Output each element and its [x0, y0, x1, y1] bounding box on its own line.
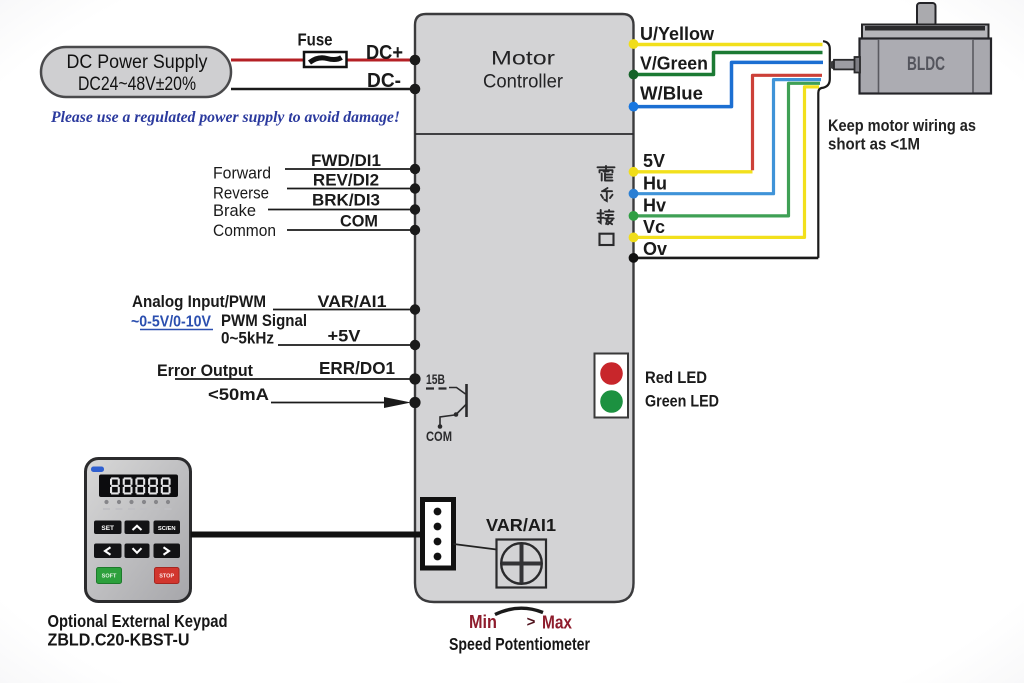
svg-text:FWD/DI1: FWD/DI1	[311, 151, 381, 170]
svg-text:Speed Potentiometer: Speed Potentiometer	[449, 634, 590, 654]
svg-text:Analog Input/PWM: Analog Input/PWM	[132, 292, 266, 311]
svg-text:15B: 15B	[426, 372, 445, 387]
svg-text:Green LED: Green LED	[645, 392, 719, 411]
svg-text:DC+: DC+	[366, 42, 403, 64]
svg-text:W/Blue: W/Blue	[640, 84, 703, 104]
svg-text:COM: COM	[340, 212, 378, 231]
svg-text:BLDC: BLDC	[907, 54, 945, 75]
svg-text:Brake: Brake	[213, 202, 256, 220]
svg-text:COM: COM	[426, 429, 452, 444]
svg-text:0~5kHz: 0~5kHz	[221, 330, 274, 348]
svg-text:SC/EN: SC/EN	[158, 526, 176, 532]
svg-text:Reverse: Reverse	[213, 185, 269, 203]
svg-text:5V: 5V	[643, 151, 665, 171]
svg-text:+5V: +5V	[328, 327, 362, 346]
svg-text:Please use a regulated power s: Please use a regulated power supply to a…	[50, 109, 400, 126]
svg-text:BRK/DI3: BRK/DI3	[312, 191, 380, 210]
svg-text:VAR/AI1: VAR/AI1	[486, 515, 556, 535]
svg-text:Keep motor wiring as: Keep motor wiring as	[828, 116, 976, 135]
svg-text:STOP: STOP	[159, 574, 174, 580]
svg-text:V/Green: V/Green	[640, 54, 708, 74]
svg-text:REV/DI2: REV/DI2	[313, 171, 379, 190]
svg-text:DC Power Supply: DC Power Supply	[67, 51, 208, 73]
svg-text:<50mA: <50mA	[208, 385, 269, 404]
svg-text:Vc: Vc	[643, 217, 665, 237]
svg-text:short as <1M: short as <1M	[828, 135, 920, 154]
svg-text:Optional External Keypad: Optional External Keypad	[48, 611, 228, 631]
svg-text:VAR/AI1: VAR/AI1	[318, 292, 387, 311]
svg-text:PWM Signal: PWM Signal	[221, 312, 307, 330]
svg-text:Min: Min	[469, 612, 497, 632]
svg-text:ZBLD.C20-KBST-U: ZBLD.C20-KBST-U	[48, 630, 190, 650]
svg-text:Red LED: Red LED	[645, 368, 707, 387]
svg-text:SET: SET	[101, 525, 114, 532]
svg-text:Hu: Hu	[643, 174, 667, 194]
svg-text:Fuse: Fuse	[298, 30, 333, 50]
svg-text:Max: Max	[542, 613, 572, 633]
svg-text:Hv: Hv	[643, 196, 666, 216]
svg-text:Ov: Ov	[643, 239, 667, 259]
svg-text:SOFT: SOFT	[102, 574, 117, 580]
svg-text:DC-: DC-	[367, 70, 401, 92]
svg-text:DC24~48V±20%: DC24~48V±20%	[78, 73, 196, 95]
svg-text:Motor: Motor	[491, 48, 556, 70]
svg-text:Common: Common	[213, 222, 276, 240]
svg-text:Error Output: Error Output	[157, 361, 253, 380]
svg-text:Controller: Controller	[483, 71, 563, 93]
svg-text:>: >	[527, 614, 536, 631]
svg-text:Forward: Forward	[213, 165, 271, 183]
svg-text:~0-5V/0-10V: ~0-5V/0-10V	[131, 314, 212, 331]
svg-text:U/Yellow: U/Yellow	[640, 24, 715, 44]
svg-text:ERR/DO1: ERR/DO1	[319, 358, 395, 378]
